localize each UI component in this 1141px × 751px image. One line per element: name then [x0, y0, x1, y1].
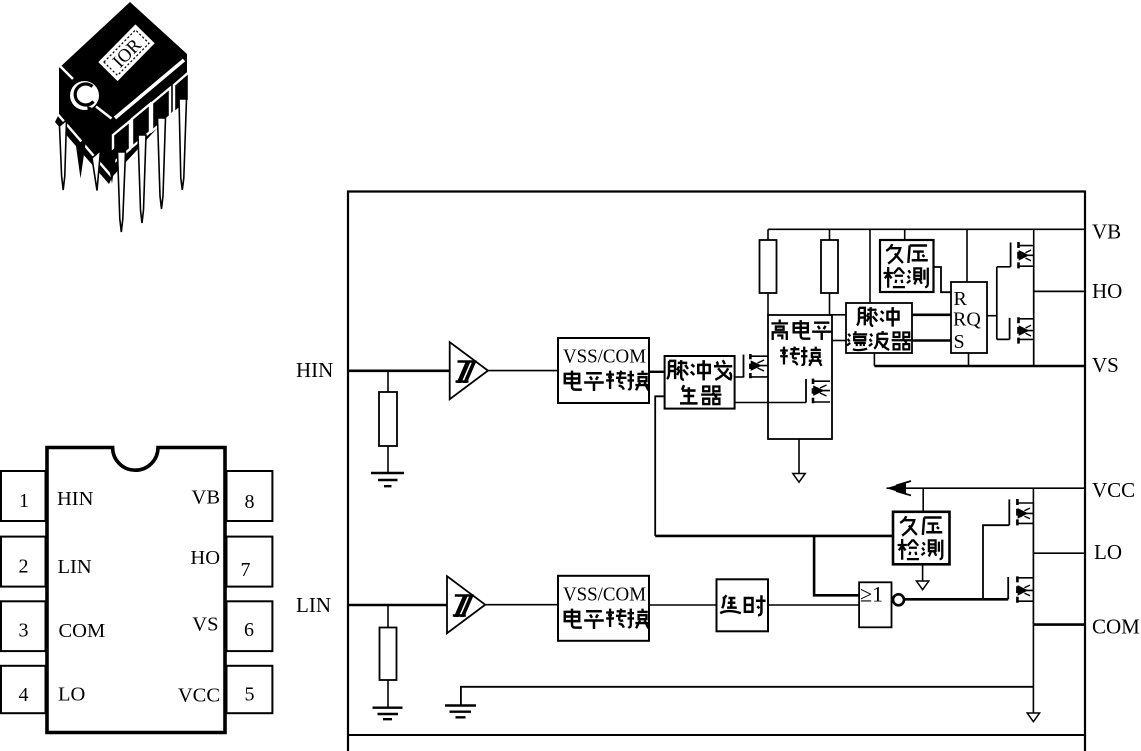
svg-text:LIN: LIN [58, 556, 92, 578]
pin1 notch arc [75, 84, 93, 105]
wire LIN input line [348, 604, 447, 607]
wire VB to latch top [966, 229, 968, 282]
pin1 notch white [70, 81, 99, 110]
hysteresis mark A2 [453, 596, 474, 616]
leg pin3 needle [92, 151, 101, 191]
transistor Q5 low-side upper [1009, 499, 1033, 525]
svg-text:HIN: HIN [57, 488, 94, 510]
leg pin8 needle [179, 99, 187, 190]
pin 8 box [227, 471, 273, 521]
svg-text:LO: LO [1094, 540, 1122, 564]
wire VCC to UV detect low [922, 488, 924, 512]
svg-text:5: 5 [245, 684, 255, 706]
svg-text:COM: COM [1092, 615, 1140, 639]
svg-text:LIN: LIN [296, 593, 331, 617]
wire VB to R4 [829, 229, 831, 240]
svg-text:VS: VS [192, 614, 218, 636]
IC boundary box U1 [348, 192, 1085, 751]
transistor Q3 high-side upper [1011, 242, 1034, 268]
hysteresis mark A1 [456, 362, 477, 382]
wire filter to VS bus [873, 353, 875, 366]
transistor Q2 [806, 379, 830, 404]
wire to pulse generator [649, 371, 665, 373]
block UV detect low [893, 512, 950, 565]
label level-shift hanzi (low) [565, 609, 649, 629]
arrow down UV low [916, 581, 928, 590]
wire to delay block [649, 604, 717, 606]
package edge highlight left [61, 67, 74, 80]
svg-text:RQ: RQ [953, 309, 981, 331]
wire level shift to filter bottom [832, 340, 846, 342]
wire R3 to level shift box [767, 293, 769, 315]
ground G1 [371, 473, 404, 486]
gate NOR U3 [859, 582, 891, 627]
svg-text:1: 1 [19, 490, 29, 512]
package edge highlight top-right [115, 60, 184, 118]
IOR label plate [98, 24, 154, 81]
svg-text:HO: HO [190, 547, 220, 569]
pin 2 box [1, 537, 46, 587]
arrow down VS-ref [793, 474, 805, 483]
svg-text:≥1: ≥1 [860, 582, 883, 607]
block RS latch U2 [951, 282, 987, 353]
label delay hanzi [720, 595, 765, 615]
leg pin8 wide [174, 72, 189, 113]
leg pin5 needle [118, 152, 126, 232]
wire VB to pulse filter [869, 229, 871, 303]
pin 1 box [1, 471, 46, 521]
wire NOR input jog [814, 536, 859, 595]
wire COM line [1033, 623, 1085, 626]
wire filter to latch S [912, 339, 951, 342]
wire Q5-Q6 totem rail [1032, 503, 1034, 625]
svg-text:LO: LO [58, 684, 85, 706]
pin1 notch wedge [87, 106, 97, 115]
wire latch Q output [987, 315, 997, 317]
svg-text:2: 2 [19, 556, 29, 578]
leg pin7 needle [158, 118, 166, 209]
arrow down COM [1027, 713, 1039, 722]
buffer A1 schmitt trigger [450, 342, 488, 399]
wire LO gate bus [983, 525, 1009, 599]
svg-text:7: 7 [241, 559, 251, 581]
transistor Q1 gate wire [735, 376, 744, 378]
wire Q3-Q4 totem rail [1033, 246, 1035, 366]
wire HIN resistor tap [387, 371, 389, 392]
svg-text:VCC: VCC [1092, 478, 1135, 502]
block VSS/COM level shift (high) [558, 338, 649, 403]
wire bottom rail [348, 734, 1085, 736]
wire level shift to filter top [830, 314, 847, 316]
leg pin7 wide [152, 88, 170, 131]
resistor R1 [379, 392, 397, 446]
wire LO line [1033, 552, 1085, 554]
wire level shift ground tap [798, 439, 800, 474]
label high-level-shift hanzi [771, 320, 831, 366]
block pulse generator [665, 356, 735, 409]
label latch pins R RQ S [953, 288, 981, 353]
transistor Q6 low-side lower [1008, 576, 1033, 602]
wire A1 output [488, 370, 558, 372]
block UV detect high [880, 240, 934, 292]
wire R4 to level shift box [829, 293, 831, 315]
leg pin5 wide [113, 121, 130, 163]
wire common ground line [461, 687, 1034, 706]
wire HIN input line [348, 369, 450, 372]
svg-text:8: 8 [245, 491, 255, 513]
pin 7 box [227, 537, 273, 587]
leg pin1 needle [60, 120, 67, 190]
leg pin4 dagger [107, 146, 118, 184]
svg-text:HIN: HIN [296, 358, 333, 382]
svg-text:3: 3 [19, 620, 29, 642]
wire pulse-gen left tap down [655, 396, 664, 536]
wire R2 to ground [387, 680, 389, 708]
label pulse-filter hanzi [847, 307, 911, 350]
block pulse filter [846, 303, 912, 353]
wire UV low ground tap [922, 564, 924, 581]
transistor Q2 gate wire [735, 402, 807, 404]
wire filter to latch R [912, 313, 951, 316]
label UV-detect-low hanzi [898, 516, 943, 560]
buffer A2 schmitt trigger [447, 576, 485, 633]
svg-text:VSS/COM: VSS/COM [563, 584, 646, 606]
block VSS/COM level shift (low) [558, 576, 649, 641]
package edge highlight front [96, 107, 112, 119]
leg pin2 dagger [76, 137, 87, 179]
svg-text:VCC: VCC [178, 685, 220, 707]
wire A2 output [485, 604, 558, 606]
wire HO line [1034, 290, 1085, 292]
resistor R4 [821, 240, 838, 293]
wire VB to UV detect high [904, 229, 906, 240]
label level-shift hanzi (high) [565, 371, 649, 391]
wire HO gate bus [997, 267, 1011, 340]
wire VCC line [887, 487, 1086, 489]
DIP-8 body outline [47, 448, 225, 733]
svg-text:6: 6 [244, 619, 254, 641]
svg-text:VB: VB [192, 487, 220, 509]
wire VB bus [768, 228, 1085, 230]
svg-text:COM: COM [59, 620, 106, 642]
NOR output bubble [893, 594, 904, 605]
transistor Q1 [744, 354, 769, 378]
svg-text:VS: VS [1092, 353, 1119, 377]
pin 4 box [1, 666, 46, 713]
wire R1 to ground [387, 446, 389, 473]
wire VB to R3 [767, 229, 769, 240]
resistor R2 [380, 628, 397, 681]
wire UV feed line (to low UV detect) [655, 535, 893, 538]
arrow left VCC [888, 481, 911, 495]
wire VS bus [874, 365, 1085, 368]
wire NOR output to gates [904, 598, 1008, 601]
pin 5 box [227, 666, 273, 713]
wire COM rail down [1032, 625, 1034, 713]
svg-text:4: 4 [19, 684, 29, 706]
svg-text:S: S [954, 331, 965, 353]
svg-text:VB: VB [1092, 220, 1121, 244]
label pulse-gen hanzi [667, 360, 732, 404]
ground G2 [373, 708, 403, 720]
DIP package 3D body [59, 2, 187, 176]
wire delay to NOR input [768, 604, 859, 606]
svg-text:R: R [954, 288, 968, 310]
package bottom band [55, 114, 113, 184]
wire LIN resistor tap [387, 605, 389, 628]
leg pin6 needle [138, 135, 146, 223]
svg-text:HO: HO [1092, 279, 1122, 303]
transistor Q4 high-side lower [1010, 317, 1034, 343]
block delay [717, 579, 769, 631]
wire latch bottom to VS bus [968, 353, 970, 366]
wire UV detect to latch R [934, 267, 952, 292]
svg-text:VSS/COM: VSS/COM [563, 346, 646, 368]
wire VCC to Q5 drain rail [1032, 488, 1034, 503]
label UV-detect-high hanzi [884, 244, 928, 288]
block high level shift [768, 315, 832, 439]
pin 6 box [227, 601, 273, 651]
wire VB to Q3 drain rail [1033, 229, 1035, 245]
pin 3 box [1, 601, 46, 651]
ground G3 [445, 706, 476, 718]
leg pin6 wide [132, 104, 150, 147]
resistor R3 [760, 240, 777, 293]
